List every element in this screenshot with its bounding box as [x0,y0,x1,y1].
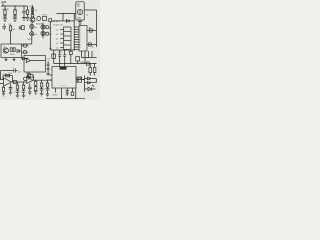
svg-text:TL072: TL072 [27,39,34,41]
S1 divider 4 [64,44,72,46]
svg-text:K1: K1 [86,15,88,17]
resistor R6 [46,32,48,35]
wire D10 [85,82,97,84]
capacitor C10 [16,91,20,92]
wire R2 bottom lead [14,15,16,16]
wire feedback right [11,76,13,82]
U1 pin 10 [74,49,79,51]
wire C1 top lead [23,6,25,11]
LED D4 [41,25,45,29]
wire R0 lead [27,6,29,10]
jack J2 tail [27,51,29,53]
capacitor C14 [46,89,50,90]
pin 5 [60,47,63,49]
capacitor C15 [14,69,16,73]
wire meter right [84,9,96,11]
capacitor C3 [19,26,20,29]
resistor R5 [46,26,48,29]
capacitor C4 [58,55,61,56]
buffer A1 [26,59,30,63]
node rail cap2 [64,63,65,64]
wire col a down [3,91,5,93]
wire col h [47,80,49,83]
jack J1 tail [27,45,29,47]
resistor R7 [49,19,52,22]
wire col 1 down [89,73,91,76]
wire feedback b [27,76,34,80]
svg-text:1: 1 [80,27,81,29]
wire output b [33,79,52,81]
svg-text:TL072: TL072 [42,15,47,17]
wire col c [17,82,19,85]
node output junction c [17,81,18,82]
diode D8 [21,57,25,60]
wire col f down [35,91,37,92]
wire U1 bottom drop 2 [84,51,86,64]
wire diode to bus [69,20,74,22]
IC U1 [79,26,87,52]
LED D2 [30,25,34,29]
svg-text:4: 4 [80,35,81,37]
wire bottom rail [46,98,85,100]
wire link [62,14,64,21]
resistor R2 [14,10,16,15]
wire y50 rail [50,49,74,51]
resistor R17 [89,68,92,73]
pin 2 [60,33,63,35]
node col 1 [90,63,91,64]
node rv1 [84,79,85,80]
enclosure preamp [24,56,46,73]
U1 pin 3 [74,31,79,33]
capacitor C1 [22,11,26,13]
capacitor C8 [66,91,69,93]
capacitor C6 [47,64,50,65]
svg-text:6: 6 [80,40,81,42]
ground [13,19,17,22]
resistor R30 [46,83,48,87]
wire col 1 [89,64,91,68]
wire U1 bottom drop 4 [91,51,93,58]
wire C1 bottom lead [23,13,25,18]
svg-text:+: + [11,17,12,19]
U1 pin 1 [74,26,79,28]
resistor R22 [13,81,17,84]
transistor Q1 [30,17,35,22]
svg-text:a2: a2 [56,34,58,36]
resistor R19 [28,73,31,76]
svg-text:+: + [1,17,2,19]
meter coil [77,9,82,14]
svg-text:9: 9 [80,47,81,49]
resistor R11 [10,48,12,52]
resistor R29 [40,83,42,87]
ground [34,92,37,95]
wire col e down [29,89,31,92]
resistor R27 [35,81,37,85]
capacitor C1b [13,16,17,17]
wire LED chain down [31,36,33,44]
ground [13,59,16,60]
capacitor C2 [2,26,6,28]
wire between LEDs [31,29,33,31]
switch IC S1 [64,27,72,50]
resistor R21 [6,74,10,77]
wire mid bus [73,14,75,51]
node K1 drop [77,63,78,64]
svg-text:+12V: +12V [1,1,7,4]
ground [26,17,30,20]
wire col h down [47,90,49,94]
node output junction d [23,81,24,82]
wire R1 top lead [4,6,6,10]
wire left mid rail [1,70,14,72]
ground [9,92,12,95]
LED D4 arrow [42,26,44,28]
ground [46,94,49,97]
node y50 bus [74,49,75,50]
U1 pin 6 [74,39,79,41]
enclosure input stage [1,44,22,58]
ground [47,73,50,74]
wire RL1 out [82,79,85,81]
wire col d [23,82,25,85]
resistor R10 [22,26,25,30]
crystal X1 [52,54,56,58]
svg-text:1k: 1k [35,10,37,12]
U1 pin 2 [74,29,79,31]
wire jack 1 [22,45,24,47]
wire col c down [17,92,19,95]
resistor R12 [13,48,15,52]
meter needle [79,9,81,14]
svg-text:1k: 1k [92,47,94,49]
IC5 bottom pin 2 [61,88,63,99]
wire y57 link [82,57,97,59]
meter box M1 [76,2,84,20]
wire U1 bottom drop 1 [81,51,83,58]
wire col a [3,86,5,87]
diode D6 [66,20,69,23]
wire label tie [2,3,4,6]
ground [22,17,26,20]
wire R0 bottom [27,15,29,18]
resistor R3 [31,8,33,12]
wire left edge [0,71,2,80]
U1 pin 9 [74,46,79,48]
wire C1b bottom [14,17,16,19]
node rv2 [84,86,85,87]
capacitor C1a [3,16,7,17]
IC5 left pin 1 [49,74,53,76]
wire X1 top [53,50,55,54]
wire output [11,81,26,83]
wire mid top [52,20,67,22]
LED D5 arrow [42,32,44,34]
resistor R26 [29,75,33,78]
LED D3 arrow [31,33,33,35]
ground [3,19,7,22]
wire U1 out 2 [87,44,97,46]
svg-text:C12: C12 [47,58,50,60]
node col h [47,80,48,81]
svg-text:led: led [34,27,36,29]
resistor R24 [16,85,18,89]
svg-text:4MHz: 4MHz [80,62,85,64]
node bus top [74,13,75,14]
wire col c mid [17,89,19,91]
wire enclosure stub 2 [13,58,15,60]
wire col x48 [47,61,49,73]
LED D5 [41,31,45,35]
wire R15 down [70,55,72,64]
resistor R8 [9,26,11,31]
part box K1 [76,57,80,61]
label IC5 [60,67,67,70]
LED D11 arrows [92,85,94,87]
IC5 bottom pin 1 [55,88,57,93]
wire upper mid rail [57,13,76,15]
resistor R13 [89,29,92,32]
wire C4 [59,50,61,67]
pin 1 [60,29,63,31]
svg-text:rx: rx [46,74,48,76]
svg-text:R5 R6: R5 R6 [10,54,15,56]
resistor R25 [22,85,24,89]
capacitor C13 [40,89,44,90]
wire box top link [22,43,32,45]
U1 pin 7 [74,41,79,43]
wire feedback left [2,76,4,80]
pin 3 [60,38,63,40]
svg-text:2: 2 [80,30,81,32]
S1 divider 3 [64,40,72,42]
jack J1 [23,44,26,47]
wire X1 bottom [53,58,55,63]
S1 divider 1 [64,31,72,33]
resistor R14 [89,43,92,46]
capacitor C5 [63,55,66,56]
node col f [35,80,36,81]
IC5 left pin 2 [49,79,53,81]
ground [16,95,19,98]
node cap1 top [59,49,60,50]
resistor R16 [86,62,89,65]
capacitor C11 [22,91,26,92]
svg-text:a1: a1 [56,29,58,31]
wire top +12V rail [1,5,28,7]
wire input 1 [0,79,4,81]
svg-text:a4: a4 [56,43,58,45]
node link top [62,13,63,14]
ground [28,92,31,95]
wire col f mid [35,85,37,86]
ground [40,93,43,96]
transistor Q4 [3,48,8,53]
op-amp IC8a [4,78,12,86]
wire C8 down [66,92,68,94]
svg-text:5: 5 [80,37,81,39]
diode D7 [17,49,20,52]
transistor Q1 leads [31,18,34,22]
node output [12,81,13,82]
ground [2,93,5,96]
wire R2 top lead [14,6,16,10]
LED D3 [30,32,34,36]
wire R15 [70,50,72,52]
wire chain to LEDs [31,22,34,24]
wire C2 [3,24,5,30]
node D8 [27,58,28,59]
wire R8 down [10,25,12,45]
node rail cap1 [59,63,60,64]
wire feedback top [3,75,12,77]
ground [5,59,8,60]
wire C5 [64,50,66,67]
wire col g down [41,90,43,93]
diode D9 [87,77,90,80]
wire R1 bottom lead [4,15,6,16]
U1 pin 4 [74,34,79,36]
svg-text:C9 10n C10: C9 10n C10 [53,24,63,26]
jack J2 [23,51,26,54]
wire D8 out [25,58,27,60]
capacitor C7 [47,68,50,69]
node col g [41,80,42,81]
node A [4,5,5,6]
diode D10 [87,81,90,84]
pin 4 [60,42,63,44]
wire right edge bus [96,10,98,47]
wire col g [41,80,43,83]
svg-text:T1: T1 [3,47,5,49]
node C [23,5,24,6]
resistor R20 [71,92,74,95]
MCU IC5 [52,67,76,89]
U1 pin 8 [74,44,79,46]
svg-text:C15: C15 [18,71,21,73]
svg-text:33k: 33k [12,29,15,31]
ground [78,22,82,25]
wire col g mid [41,87,43,89]
wire LED column 2 [42,23,44,39]
wire col b down [10,89,12,92]
svg-text:a3: a3 [56,38,58,40]
jack J2 pin [25,52,26,53]
LED D11 [88,87,91,90]
resistor R15 [69,52,72,55]
svg-text:in: in [28,46,29,48]
wire R7 to rail [49,22,51,50]
resistor R18 [93,68,96,73]
part box X2 [43,17,47,21]
wire y63 rail [54,63,97,65]
node col 2 [94,63,95,64]
capacitor C9 [9,88,13,90]
resistor R0 [26,10,28,15]
IC5 right pin [76,79,85,81]
wire C15 right [16,70,18,72]
wire A1 out [30,60,45,62]
svg-text:8: 8 [80,45,81,47]
node cap2 top [64,49,65,50]
IC5 bottom pin 4 [72,88,74,92]
svg-text:3: 3 [80,32,81,34]
op-amp IC8b [27,77,33,83]
svg-text:led: led [34,34,36,36]
wire col 2 down [94,73,96,76]
wire U1 out 1 [87,30,97,32]
wire col f [35,80,37,81]
node B [14,5,15,6]
wire D9 [85,78,97,80]
wire right vertical [84,76,86,93]
S1 divider 2 [64,35,72,37]
transistor Q4 leads [5,49,8,53]
crystal X1 inner [53,54,55,58]
svg-text:7: 7 [80,42,81,44]
wire IC5 right edge down [75,88,77,99]
wire meter to ground [79,20,81,22]
wire enclosure stub 1 [5,58,7,60]
capacitor C12 [28,87,32,88]
wire col d mid [23,89,25,91]
wire input 2 [0,83,4,85]
wire col h mid [47,87,49,89]
resistor R1 [4,10,6,15]
wire col e [29,83,31,87]
jack J1 pin [25,45,26,46]
wire K1 drop [77,61,79,64]
ground [22,95,25,98]
resistor R28 [35,86,37,90]
wire supply chain [32,5,34,15]
resistor R4 [31,13,33,17]
ground [28,78,31,79]
wire jack 2 [22,51,24,53]
IC5 bottom pin 3 [66,88,68,91]
svg-text:a5: a5 [56,47,58,49]
U1 pin 5 [74,36,79,38]
wire col b [10,83,12,87]
LED D2 arrow [31,25,33,27]
svg-text:5V 0V: 5V 0V [52,95,58,97]
wire U1 bottom drop 3 [88,51,90,58]
svg-text:PIC16: PIC16 [61,85,66,87]
svg-text:C3 C4: C3 C4 [58,52,63,54]
relay RL1 hatch [77,77,82,82]
wire C1a bottom [4,17,6,19]
resistor R23 [2,87,4,91]
wire D11 [85,88,96,90]
wire col 2 [94,64,96,68]
ground [66,94,69,95]
transistor Q2 [37,17,41,21]
wire right edge short [95,79,97,83]
wire col d down [23,92,25,95]
transistor Q5 [24,77,27,80]
relay RL1 [77,77,82,82]
